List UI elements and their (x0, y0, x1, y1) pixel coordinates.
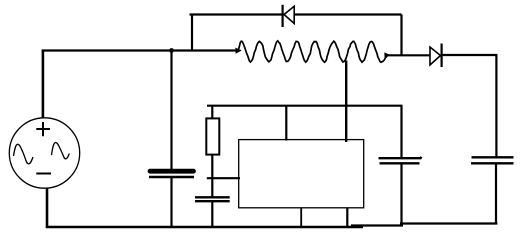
wire U1 bottom pin 2 (346, 208, 348, 226)
wire V1 top lead (42, 50, 45, 119)
capacitor C4 bottom plate (471, 162, 514, 164)
diode D2 triangle (430, 47, 441, 65)
wire U1 top pin 1 (285, 106, 287, 141)
wire bottom rail right segment (400, 222, 497, 224)
wire C1 upper lead (170, 51, 172, 170)
V1 right sine squiggle (52, 142, 70, 158)
wire IC left pin (207, 177, 240, 179)
wire L1 right end link (389, 54, 430, 56)
wire resistor top stub (211, 106, 213, 118)
resistor R1 body (206, 118, 219, 154)
AC source V1 circle (9, 118, 79, 188)
diode D2 cathode bar (441, 44, 443, 68)
wire inductor tap to U1 (345, 61, 347, 143)
wire D2 to right corner (442, 54, 498, 56)
inductor L1 left arrowhead (235, 48, 242, 54)
node junction dot (169, 48, 174, 53)
wire top rail left of D1 (190, 13, 282, 15)
wire U1 bottom pin 1 (300, 208, 302, 227)
wire mid cap upper lead (400, 106, 402, 158)
wire resistor bottom lead (211, 155, 213, 197)
V1 plus sign (36, 122, 50, 136)
wire right drop to diode level (400, 15, 402, 56)
capacitor C1 bottom plate (149, 176, 194, 178)
inductor L1 right arrowhead (384, 52, 391, 58)
capacitor C4 top plate (472, 156, 514, 158)
wire mid top y105 (207, 105, 403, 107)
wire C3 bottom lead (400, 163, 402, 224)
wire C2 bottom lead (211, 201, 213, 227)
wire riser to top rail (191, 14, 193, 51)
wire C1 lower lead (170, 178, 172, 228)
wire top-left rail y50 (42, 49, 238, 51)
diode D1 triangle (284, 6, 294, 23)
capacitor C1 thick top plate (150, 169, 194, 174)
capacitor C2 bottom plate (195, 200, 230, 202)
capacitor C2 top plate (195, 196, 230, 198)
inductor L1 squiggle (237, 41, 388, 62)
wire bottom rail middle segment (351, 224, 403, 226)
wire V1 bottom lead (46, 189, 49, 228)
V1 minus sign (36, 173, 51, 175)
capacitor C3 bottom plate (380, 162, 420, 164)
op-amp U1 block (239, 140, 364, 208)
wire right side drop (495, 55, 497, 157)
wire bottom rail main segment (46, 226, 363, 229)
diode D1 cathode bar (282, 5, 284, 27)
V1 left sine squiggle (14, 144, 34, 164)
wire C4 bottom lead (495, 163, 497, 224)
capacitor C3 top plate (379, 157, 422, 158)
wire top rail right of D1 (294, 13, 401, 15)
